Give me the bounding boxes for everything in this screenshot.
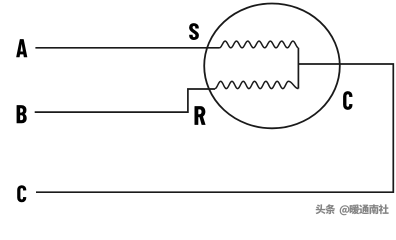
- common label C: [343, 91, 352, 110]
- terminal label C: [17, 185, 26, 202]
- motor stator circle: [204, 4, 340, 129]
- terminal label B: [17, 105, 27, 123]
- watermark 头条@暖通南社: [316, 204, 389, 215]
- terminal label A: [16, 39, 27, 57]
- run winding R coil: [215, 81, 298, 88]
- wire C (common tap to terminal C): [36, 64, 393, 192]
- wire A (terminal A to start winding): [35, 47, 219, 49]
- start-winding label S: [189, 23, 199, 40]
- wire B (terminal B to run winding): [35, 89, 215, 112]
- run-winding label R: [194, 106, 205, 125]
- common junction wire joining winding ends: [297, 48, 299, 89]
- start winding S coil: [220, 41, 299, 48]
